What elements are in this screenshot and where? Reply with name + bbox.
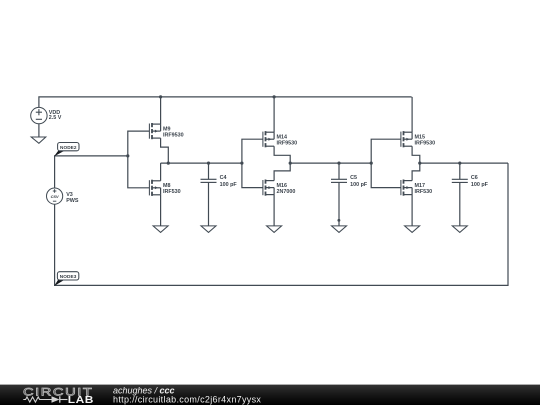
svg-text:http://circuitlab.com/c2j6r4xn: http://circuitlab.com/c2j6r4xn7yysx — [113, 394, 261, 404]
ground below M17 — [405, 226, 420, 233]
svg-text:100 pF: 100 pF — [471, 182, 489, 188]
capacitor C5 100 pF — [331, 178, 347, 180]
node dot C4 — [207, 162, 210, 165]
svg-text:C4: C4 — [220, 175, 227, 181]
svg-text:PWS: PWS — [66, 198, 79, 204]
wire C4 top — [208, 163, 210, 179]
wire C5 bottom — [338, 182, 340, 226]
wire M17 source to ground — [411, 195, 413, 226]
ground below M8 — [153, 226, 168, 233]
transistor M9 IRF9530 PMOS — [149, 97, 183, 163]
transistor M8 IRF530 NMOS — [149, 163, 180, 226]
wire M17 drain to output 3 — [412, 163, 420, 181]
wire C5 top — [338, 163, 340, 179]
ground below C6 — [452, 226, 467, 233]
wire M9 drain to rail — [160, 97, 162, 124]
wire VDD source to ground — [38, 124, 40, 137]
logo resistor zigzag — [23, 397, 51, 402]
wire M16 source to ground — [273, 195, 275, 226]
node NODE3 flag — [54, 272, 79, 286]
svg-text:NODE3: NODE3 — [60, 274, 77, 279]
svg-text:IRF530: IRF530 — [415, 189, 433, 195]
transistor M15 IRF9530 PMOS — [401, 97, 435, 163]
transistor M14 IRF9530 PMOS — [263, 97, 297, 163]
node dot output 2 — [289, 162, 292, 165]
node dot gate bus 2 — [240, 162, 243, 165]
transistor M16 2N7000 NMOS — [263, 163, 295, 226]
svg-text:2N7000: 2N7000 — [277, 189, 296, 195]
wire stage1 gate bus — [128, 131, 150, 188]
node dot M9 source — [167, 162, 170, 165]
footer bar — [0, 385, 540, 405]
wire M15 source to output 3 — [412, 146, 420, 163]
capacitor C6 100 pF — [452, 178, 468, 180]
wire V3 down to NODE3 and bottom rail to right edge — [55, 163, 508, 285]
node dot gate bus 3 — [370, 162, 373, 165]
wire M15 drain to rail — [411, 97, 413, 132]
logo diode — [52, 396, 60, 402]
svg-text:100 pF: 100 pF — [220, 182, 238, 188]
wire C4 bottom — [208, 182, 210, 226]
wire NODE2 to gate bus 1 — [55, 156, 128, 188]
ground below C4 — [201, 226, 216, 233]
transistor M17 IRF530 NMOS — [401, 163, 432, 226]
wire stage3 gate bus — [371, 139, 401, 187]
svg-text:IRF9530: IRF9530 — [415, 141, 436, 147]
wire M14 drain to rail — [273, 97, 275, 132]
svg-text:IRF9530: IRF9530 — [277, 141, 298, 147]
node dot stray on C5 ground wire — [337, 219, 340, 222]
node dot C5 — [337, 162, 340, 165]
svg-text:NODE2: NODE2 — [60, 145, 77, 150]
wire M14 source to output 2 — [274, 146, 290, 163]
voltage source V1 VDD 2.5 V — [31, 107, 62, 123]
svg-text:C5: C5 — [350, 175, 357, 181]
svg-text:V3: V3 — [66, 192, 73, 198]
node NODE2 flag — [54, 143, 79, 157]
capacitor C4 100 pF — [201, 178, 217, 180]
wire C6 bottom — [459, 182, 461, 226]
wire output node 1 — [161, 162, 242, 164]
svg-text:2.5 V: 2.5 V — [49, 115, 62, 121]
ground below VDD — [31, 137, 46, 143]
svg-text:C6: C6 — [471, 175, 478, 181]
wire VDD top rail — [39, 97, 412, 108]
wire M8 source to ground — [160, 195, 162, 226]
node dot rail M14 — [273, 95, 276, 98]
wire output node 3 — [420, 162, 508, 164]
node dot gate bus 1 — [126, 154, 129, 157]
svg-text:LAB: LAB — [68, 395, 94, 405]
node dot output 3 — [418, 162, 421, 165]
voltage source V3 PWS — [47, 188, 79, 204]
wire M9 source to output 1 — [161, 138, 169, 163]
svg-text:IRF530: IRF530 — [163, 189, 181, 195]
node dot rail M9 — [159, 95, 162, 98]
wire stage2 gate bus — [242, 139, 263, 187]
wire M16 drain to output 2 — [274, 163, 290, 181]
wire C6 top — [459, 163, 461, 179]
wire M8 drain to output 1 — [160, 163, 162, 181]
svg-text:IRF9530: IRF9530 — [163, 132, 184, 138]
svg-text:100 pF: 100 pF — [350, 182, 368, 188]
ground below M16 — [267, 226, 282, 233]
wire output node 2 — [290, 162, 371, 164]
node dot C6 — [458, 162, 461, 165]
svg-text:CSV: CSV — [51, 194, 59, 199]
ground below C5 — [332, 226, 347, 233]
